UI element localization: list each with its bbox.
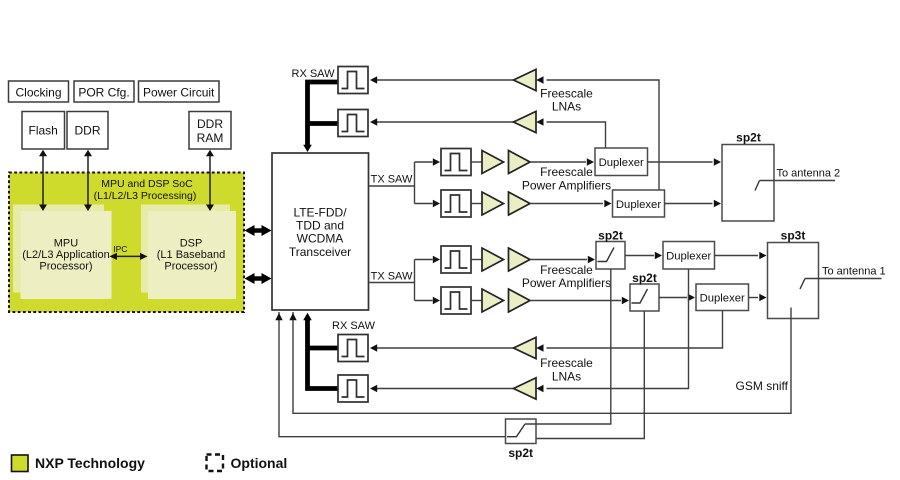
svg-text:Duplexer: Duplexer (599, 157, 644, 169)
wire DDR to MPU (84, 150, 92, 211)
box Clocking (9, 81, 69, 102)
box DDR (67, 112, 108, 150)
wire SoC to transceiver bus 2 (245, 273, 272, 284)
wire TX SAW2 to PA (471, 203, 482, 205)
wire LNA1 to RX SAW 1 (370, 76, 514, 83)
wire LNA4 to RX SAW 4 (370, 385, 514, 392)
svg-text:Freescale: Freescale (540, 263, 593, 277)
legend NXP Technology (12, 455, 146, 472)
svg-text:WCDMA: WCDMA (297, 232, 344, 246)
wire DDR RAM to DSP (206, 150, 214, 211)
label Freescale LNAs top (540, 87, 593, 114)
wire TX SAW3 to PA (471, 259, 482, 261)
svg-text:sp2t: sp2t (598, 229, 623, 243)
switch sp3t antenna1 (768, 229, 819, 319)
wire PA1 to duplexer1 (530, 158, 594, 165)
wire thick RX feed top (303, 82, 338, 152)
wire sp2t bottom to sw1 (525, 269, 611, 424)
svg-text:MPU: MPU (54, 238, 79, 250)
amplifier PA2a (482, 192, 504, 215)
wire duplexer1 to sp2t (648, 158, 722, 165)
legend Optional (207, 455, 288, 472)
amplifier LNA4 (514, 378, 544, 399)
svg-text:sp2t: sp2t (632, 271, 657, 285)
wire transceiver TX bottom split (369, 256, 441, 304)
wire PA2 to duplexer2 (530, 200, 612, 207)
svg-text:Optional: Optional (231, 455, 288, 471)
svg-text:sp2t: sp2t (736, 131, 761, 145)
svg-text:LNAs: LNAs (552, 370, 581, 384)
switch sp2t antenna2 (722, 131, 774, 222)
wire duplexer1 to LNA2 (547, 122, 606, 148)
wire SoC to transceiver bus 1 (245, 225, 272, 236)
svg-text:To antenna 2: To antenna 2 (777, 168, 841, 180)
svg-text:TX SAW: TX SAW (371, 174, 413, 186)
svg-text:Duplexer: Duplexer (616, 199, 661, 211)
amplifier PA3a (482, 248, 504, 271)
svg-text:Clocking: Clocking (15, 86, 61, 100)
dashed box MPU and DSP SoC (9, 173, 244, 313)
svg-text:(L1/L2/L3 Processing): (L1/L2/L3 Processing) (94, 190, 197, 202)
svg-text:DSP: DSP (180, 238, 203, 250)
svg-text:Power Amplifiers: Power Amplifiers (522, 178, 611, 192)
box Power Circuit (139, 81, 220, 102)
svg-text:DDR: DDR (75, 124, 101, 138)
box Duplexer 4 (696, 284, 749, 311)
svg-text:sp2t: sp2t (508, 446, 533, 460)
wire transceiver TX top split (369, 158, 441, 207)
wire thick RX feed bottom (303, 313, 338, 389)
box DSP (shadow) (141, 205, 230, 293)
svg-text:(L1 Baseband: (L1 Baseband (157, 249, 226, 261)
svg-text:(L2/L3 Application: (L2/L3 Application (22, 249, 109, 261)
wire TX SAW4 to PA (471, 300, 482, 302)
amplifier LNA1 (514, 69, 544, 90)
filter RX SAW 1 (338, 67, 368, 94)
wire duplexer4 to LNA3 (547, 311, 723, 349)
svg-text:MPU and DSP SoC: MPU and DSP SoC (101, 178, 193, 190)
wire transceiver bottom arrow 1 (275, 312, 505, 437)
label Freescale LNAs bottom (540, 356, 593, 384)
svg-text:Flash: Flash (29, 124, 58, 138)
svg-text:Power Amplifiers: Power Amplifiers (522, 276, 611, 290)
svg-text:RX SAW: RX SAW (292, 68, 336, 80)
filter RX SAW 3 (338, 335, 368, 362)
amplifier PA1b (509, 151, 531, 174)
switch sp2t sw1 (596, 229, 625, 270)
filter RX SAW 2 (338, 110, 368, 137)
wire duplexer2 to sp2t (665, 200, 722, 207)
amplifier LNA3 (514, 337, 544, 358)
label Freescale Power Amplifiers bottom (522, 263, 611, 290)
svg-text:Freescale: Freescale (540, 356, 593, 370)
svg-text:RX SAW: RX SAW (332, 320, 376, 332)
box DDR RAM (189, 112, 231, 150)
amplifier PA4a (482, 289, 504, 312)
svg-text:IPC: IPC (113, 244, 127, 254)
filter TX SAW 2 (441, 190, 471, 217)
box Duplexer 2 (613, 190, 665, 217)
wire LNA2 to RX SAW 2 (370, 118, 514, 125)
amplifier LNA2 (514, 111, 544, 132)
wire PA4 to sp2t sw2 (530, 297, 629, 304)
wire LNA3 to RX SAW 3 (370, 344, 514, 351)
switch sp2t sw2 (630, 271, 659, 311)
box POR Cfg. (74, 81, 134, 102)
amplifier PA3b (509, 248, 531, 271)
svg-text:To antenna 1: To antenna 1 (822, 266, 886, 278)
svg-text:TDD and: TDD and (296, 219, 344, 233)
svg-text:GSM sniff: GSM sniff (736, 379, 789, 393)
svg-text:sp3t: sp3t (781, 229, 806, 243)
wire PA3 to sp2t sw1 (530, 256, 595, 263)
box Duplexer 1 (595, 148, 648, 176)
filter RX SAW 4 (338, 375, 368, 402)
svg-text:Freescale: Freescale (540, 87, 593, 101)
label Freescale Power Amplifiers top (522, 165, 611, 192)
svg-text:Duplexer: Duplexer (666, 251, 711, 263)
box Duplexer 3 (663, 242, 715, 270)
wire TX SAW1 to PA (471, 161, 482, 163)
box MPU U1 (21, 211, 112, 299)
switch sp2t bottom (506, 419, 537, 460)
svg-text:Transceiver: Transceiver (289, 245, 351, 259)
box DSP U2 (148, 211, 236, 299)
svg-text:Duplexer: Duplexer (700, 293, 745, 305)
svg-text:Processor): Processor) (39, 261, 92, 273)
wire sp2t sw1 to duplexer3 (625, 252, 662, 259)
filter TX SAW 4 (441, 287, 471, 314)
svg-text:LNAs: LNAs (552, 100, 581, 114)
wire GSM sniff path (289, 312, 791, 413)
svg-text:DDR: DDR (197, 117, 223, 131)
filter TX SAW 1 (441, 149, 471, 176)
wire to antenna 2 (760, 168, 841, 181)
wire Flash to MPU (39, 150, 47, 211)
wire duplexer4 to sp3t (749, 294, 767, 301)
box MPU (shadow) (13, 205, 104, 293)
svg-text:Processor): Processor) (164, 261, 217, 273)
box LTE transceiver U3 (272, 153, 369, 310)
filter TX SAW 3 (441, 246, 471, 273)
amplifier PA4b (509, 289, 531, 312)
amplifier PA1a (482, 151, 504, 174)
svg-text:TX SAW: TX SAW (371, 271, 413, 283)
wire duplexer3 to sp3t (715, 252, 767, 259)
wire sp2t bottom to sw2 (536, 311, 644, 439)
wire sp2t sw2 to duplexer4 (659, 294, 695, 301)
wire to antenna 1 (805, 266, 886, 279)
box Flash (22, 112, 65, 150)
amplifier PA2b (509, 192, 531, 215)
svg-text:Freescale: Freescale (540, 165, 593, 179)
wire duplexer3 to LNA4 (547, 269, 689, 389)
wire duplexer2 to LNA1 (547, 80, 660, 190)
svg-text:RAM: RAM (197, 131, 224, 145)
wire IPC arrow (109, 244, 147, 260)
svg-text:LTE-FDD/: LTE-FDD/ (293, 206, 347, 220)
svg-text:POR Cfg.: POR Cfg. (78, 86, 129, 100)
svg-text:Power Circuit: Power Circuit (143, 86, 215, 100)
svg-text:NXP Technology: NXP Technology (35, 455, 145, 471)
